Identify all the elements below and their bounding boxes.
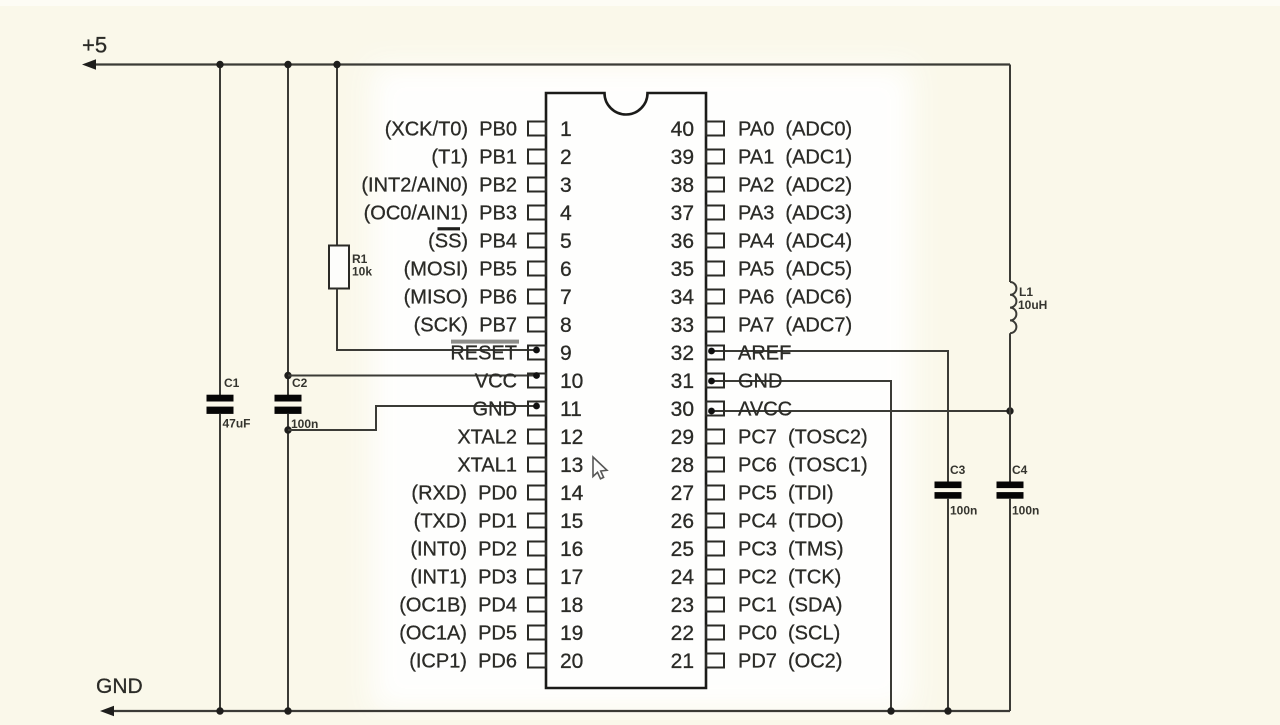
svg-text:PA3 (ADC3): PA3 (ADC3) (738, 203, 852, 225)
wire AVCC pin30 (712, 410, 1010, 412)
svg-text:(MISO) PB6: (MISO) PB6 (404, 287, 517, 309)
svg-text:30: 30 (671, 398, 694, 421)
junction dot bottom rail / C2 (284, 707, 291, 714)
svg-text:AVCC: AVCC (738, 399, 792, 421)
svg-text:L1: L1 (1019, 285, 1033, 299)
svg-text:24: 24 (671, 566, 695, 589)
svg-text:18: 18 (560, 594, 583, 617)
svg-text:31: 31 (671, 370, 694, 393)
overbar SS pin5 (438, 227, 461, 230)
svg-text:AREF: AREF (738, 343, 791, 365)
svg-text:(INT1) PD3: (INT1) PD3 (410, 567, 517, 589)
capacitor C1 47uF (207, 376, 251, 431)
pin 21 PD7 right (671, 650, 843, 673)
wire C1 branch top (219, 65, 221, 397)
pin 24 PC2 right (671, 566, 842, 589)
pin 37 PA3 right (671, 202, 852, 225)
svg-text:17: 17 (560, 566, 583, 589)
pin 22 PC0 right (671, 622, 841, 645)
svg-text:28: 28 (671, 454, 694, 477)
svg-text:27: 27 (671, 482, 694, 505)
pin 4 PB3 left (364, 202, 572, 225)
wire C4 bottom (1009, 499, 1011, 711)
pin 17 PD3 left (410, 566, 583, 589)
pin 38 PA2 right (671, 174, 852, 197)
svg-text:XTAL2: XTAL2 (457, 427, 517, 449)
svg-text:GND: GND (738, 371, 782, 393)
wire C2 branch top (287, 65, 289, 397)
pin 28 PC6 right (671, 454, 868, 477)
wire C3 bottom (947, 499, 949, 711)
capacitor C3 100n (935, 463, 978, 518)
svg-text:(INT0) PD2: (INT0) PD2 (410, 539, 517, 561)
svg-text:5: 5 (560, 230, 572, 253)
pin 16 PD2 left (410, 538, 583, 561)
svg-text:PA2 (ADC2): PA2 (ADC2) (738, 175, 852, 197)
svg-text:(OC1B) PD4: (OC1B) PD4 (399, 595, 517, 617)
pin 10 VCC left (475, 370, 584, 393)
svg-text:3: 3 (560, 174, 572, 197)
svg-text:+5: +5 (82, 33, 107, 58)
svg-text:(T1) PB1: (T1) PB1 (431, 147, 517, 169)
svg-text:PC2 (TCK): PC2 (TCK) (738, 567, 841, 589)
pin 36 PA4 right (671, 230, 852, 253)
svg-text:38: 38 (671, 174, 694, 197)
svg-text:(XCK/T0) PB0: (XCK/T0) PB0 (385, 119, 517, 141)
wire GND bottom rail (100, 706, 1010, 716)
svg-text:35: 35 (671, 258, 694, 281)
mouse cursor (593, 457, 607, 479)
svg-text:23: 23 (671, 594, 694, 617)
svg-text:6: 6 (560, 258, 572, 281)
svg-text:32: 32 (671, 342, 694, 365)
inductor L1 10uH (1010, 282, 1047, 333)
pin 30 AVCC right (671, 398, 792, 421)
svg-text:10uH: 10uH (1018, 298, 1047, 312)
svg-text:1: 1 (560, 118, 572, 141)
wire AREF pin32 to C3 (712, 351, 948, 482)
svg-text:(TXD) PD1: (TXD) PD1 (414, 511, 517, 533)
junction dot bottom rail / C1 (216, 707, 223, 714)
pin 12 XTAL2 left (457, 426, 583, 449)
pin 15 PD1 left (414, 510, 584, 533)
pin 18 PD4 left (399, 594, 583, 617)
resistor R1 10k (329, 246, 372, 289)
svg-text:(ICP1) PD6: (ICP1) PD6 (409, 651, 517, 673)
pin 40 PA0 right (671, 118, 852, 141)
svg-text:(RXD) PD0: (RXD) PD0 (411, 483, 517, 505)
svg-text:8: 8 (560, 314, 572, 337)
wire C1 branch bottom (219, 414, 221, 711)
svg-text:PD7 (OC2): PD7 (OC2) (738, 651, 842, 673)
svg-text:(OC1A) PD5: (OC1A) PD5 (399, 623, 517, 645)
svg-text:20: 20 (560, 650, 583, 673)
svg-text:25: 25 (671, 538, 694, 561)
wire L1 to C4 (1009, 333, 1011, 482)
svg-text:12: 12 (560, 426, 583, 449)
pin 9 RESET left (450, 342, 571, 365)
wire R1 branch top (336, 65, 338, 247)
svg-text:(SCK) PB7: (SCK) PB7 (414, 315, 517, 337)
pin 8 PB7 left (414, 314, 572, 337)
svg-text:7: 7 (560, 286, 572, 309)
svg-text:40: 40 (671, 118, 694, 141)
svg-text:47uF: 47uF (223, 417, 251, 431)
junction dot bottom rail / C3 (944, 707, 951, 714)
overbar RESET pin9 (451, 340, 519, 344)
svg-text:PA7 (ADC7): PA7 (ADC7) (738, 315, 852, 337)
pin 3 PB2 left (361, 174, 571, 197)
junction dot top rail / R1 (333, 61, 340, 68)
svg-text:C2: C2 (292, 376, 308, 390)
svg-text:PC5 (TDI): PC5 (TDI) (738, 483, 834, 505)
pin 14 PD0 left (411, 482, 583, 505)
IC U1 ATmega body (546, 93, 706, 688)
wire VCC pin10 (288, 375, 535, 377)
svg-text:34: 34 (671, 286, 695, 309)
pin 6 PB5 left (404, 258, 572, 281)
svg-text:PC7 (TOSC2): PC7 (TOSC2) (738, 427, 868, 449)
svg-text:33: 33 (671, 314, 694, 337)
svg-text:RESET: RESET (450, 343, 517, 365)
svg-text:100n: 100n (291, 417, 318, 431)
svg-text:(MOSI) PB5: (MOSI) PB5 (404, 259, 517, 281)
svg-text:37: 37 (671, 202, 694, 225)
svg-text:9: 9 (560, 342, 572, 365)
capacitor C4 100n (997, 463, 1040, 518)
pin 1 PB0 left (385, 118, 572, 141)
wire R1 bottom to RESET (337, 289, 535, 351)
junction dot AVCC / right vertical (1006, 407, 1013, 414)
svg-text:C4: C4 (1012, 463, 1028, 477)
svg-text:PC1 (SDA): PC1 (SDA) (738, 595, 842, 617)
svg-text:39: 39 (671, 146, 694, 169)
svg-text:PC0 (SCL): PC0 (SCL) (738, 623, 840, 645)
pin 32 AREF right (671, 342, 792, 365)
pin 23 PC1 right (671, 594, 843, 617)
svg-text:PA4 (ADC4): PA4 (ADC4) (738, 231, 852, 253)
svg-text:GND: GND (473, 399, 517, 421)
svg-text:16: 16 (560, 538, 583, 561)
pin 35 PA5 right (671, 258, 852, 281)
svg-text:PA6 (ADC6): PA6 (ADC6) (738, 287, 852, 309)
svg-text:PA0 (ADC0): PA0 (ADC0) (738, 119, 852, 141)
pin 13 XTAL1 left (457, 454, 583, 477)
svg-text:GND: GND (96, 675, 143, 698)
svg-text:(OC0/AIN1) PB3: (OC0/AIN1) PB3 (364, 203, 517, 225)
pin 26 PC4 right (671, 510, 844, 533)
svg-text:13: 13 (560, 454, 583, 477)
svg-text:C1: C1 (224, 376, 240, 390)
svg-text:4: 4 (560, 202, 572, 225)
svg-text:11: 11 (560, 398, 582, 421)
junction dot C2 / GND wire (284, 426, 291, 433)
svg-text:C3: C3 (950, 463, 966, 477)
svg-text:19: 19 (560, 622, 583, 645)
svg-text:21: 21 (671, 650, 694, 673)
wire C2 branch bottom (287, 414, 289, 711)
svg-text:VCC: VCC (475, 371, 517, 393)
wire +5 top rail (82, 59, 1010, 69)
pin 29 PC7 right (671, 426, 868, 449)
svg-text:22: 22 (671, 622, 694, 645)
wire right vertical top to L1 (1009, 65, 1011, 283)
pin 5 PB4 left (428, 230, 572, 253)
capacitor C2 100n (275, 376, 319, 431)
svg-text:100n: 100n (950, 504, 977, 518)
svg-text:PC3 (TMS): PC3 (TMS) (738, 539, 844, 561)
junction dot top rail / C1 (216, 61, 223, 68)
svg-text:PA1 (ADC1): PA1 (ADC1) (738, 147, 852, 169)
pin 27 PC5 right (671, 482, 834, 505)
pin 19 PD5 left (399, 622, 583, 645)
pin 2 PB1 left (431, 146, 571, 169)
svg-text:10: 10 (560, 370, 583, 393)
pin 34 PA6 right (671, 286, 852, 309)
svg-text:PC4 (TDO): PC4 (TDO) (738, 511, 844, 533)
svg-text:XTAL1: XTAL1 (457, 455, 517, 477)
svg-text:14: 14 (560, 482, 584, 505)
pin 39 PA1 right (671, 146, 852, 169)
pin 20 PD6 left (409, 650, 583, 673)
svg-text:(SS) PB4: (SS) PB4 (428, 231, 517, 253)
pin 11 GND left (473, 398, 582, 421)
wire GND pin11 (288, 406, 535, 430)
svg-text:2: 2 (560, 146, 572, 169)
svg-text:29: 29 (671, 426, 694, 449)
junction dot C2 / VCC wire (284, 372, 291, 379)
svg-text:PA5 (ADC5): PA5 (ADC5) (738, 259, 852, 281)
svg-text:100n: 100n (1012, 504, 1039, 518)
pin 31 GND right (671, 370, 783, 393)
svg-text:PC6 (TOSC1): PC6 (TOSC1) (738, 455, 868, 477)
svg-text:15: 15 (560, 510, 583, 533)
junction dot bottom rail / GND31 (887, 707, 894, 714)
wire GND pin31 to bottom rail (712, 381, 891, 711)
pin 33 PA7 right (671, 314, 852, 337)
junction dot top rail / C2 (284, 61, 291, 68)
pin 7 PB6 left (404, 286, 572, 309)
svg-text:(INT2/AIN0) PB2: (INT2/AIN0) PB2 (361, 175, 517, 197)
svg-text:10k: 10k (352, 265, 372, 279)
svg-text:26: 26 (671, 510, 694, 533)
svg-text:36: 36 (671, 230, 694, 253)
pin 25 PC3 right (671, 538, 844, 561)
